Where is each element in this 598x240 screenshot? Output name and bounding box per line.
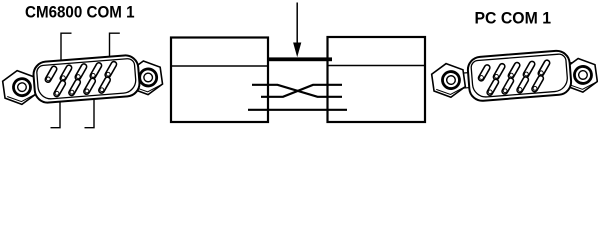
left connector CM6800 COM1 (DB9 male) — [1, 54, 163, 106]
pins 1-9 — [479, 63, 549, 95]
pins 1-9 — [46, 64, 116, 96]
leader line top-right to pin 4 — [110, 33, 120, 71]
arrow to top wire — [293, 3, 301, 58]
wire bottom — [248, 109, 347, 111]
left box — [171, 38, 268, 123]
connector face — [471, 54, 569, 98]
leader line bottom-left from pin 6 — [51, 93, 61, 128]
jack screw tab left — [457, 73, 470, 89]
svg-text:PC COM 1: PC COM 1 — [475, 8, 552, 27]
jack screw tab right — [130, 66, 143, 82]
right box divider — [328, 65, 426, 67]
right connector PC COM1 (DB9 male) — [430, 50, 598, 102]
leader line bottom-right from pin 8 — [85, 90, 95, 128]
connector face — [36, 58, 136, 100]
hex nut left — [430, 61, 466, 99]
right box — [328, 37, 426, 122]
svg-text:CM6800 COM 1: CM6800 COM 1 — [25, 2, 135, 21]
leader line top-left to pin 1 — [51, 33, 120, 128]
wire thick top — [267, 57, 332, 61]
jack screw tab right — [561, 63, 574, 79]
hex nut right — [562, 56, 598, 94]
connector shell — [467, 50, 572, 102]
connector shell — [33, 54, 141, 103]
wire crossover lower-left to upper-right — [261, 85, 342, 97]
wire crossover upper-left to lower-right — [248, 85, 347, 110]
hex nut left — [1, 68, 37, 106]
jack screw tab left — [29, 76, 42, 92]
left box divider — [171, 65, 268, 67]
hex nut right — [128, 59, 164, 97]
